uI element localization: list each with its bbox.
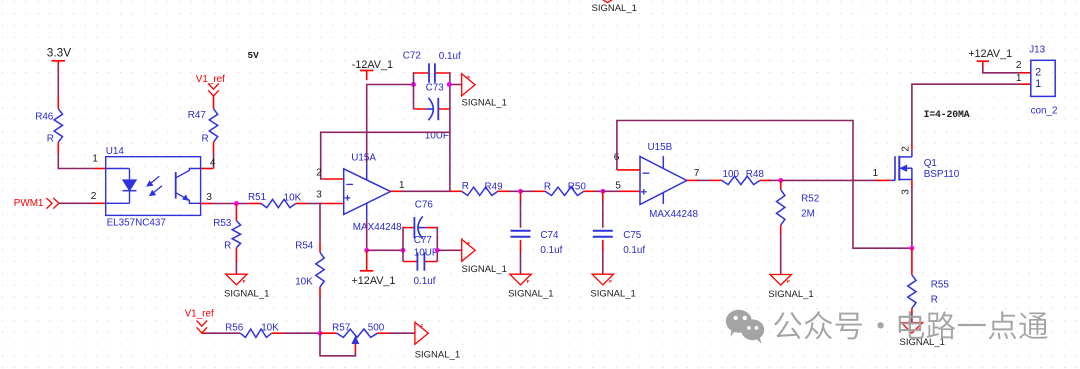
capacitor C77 0.1uf <box>403 235 438 287</box>
svg-text:SIGNAL_1: SIGNAL_1 <box>900 337 945 348</box>
resistor R54 <box>295 240 324 287</box>
resistor R56 <box>225 322 279 337</box>
potentiometer R57 500 <box>332 322 385 343</box>
junction C75 tap <box>600 189 605 194</box>
wire Q1 source down <box>911 180 913 188</box>
op-amp U15B MAX44248 <box>640 142 698 220</box>
svg-text:MAX44248: MAX44248 <box>353 222 402 233</box>
svg-text:R47: R47 <box>188 110 206 121</box>
svg-text:F: F <box>527 279 530 285</box>
wire R54 branch <box>319 203 321 243</box>
svg-text:+12AV_1: +12AV_1 <box>352 275 396 287</box>
wire U15A output <box>391 190 403 192</box>
svg-text:con_2: con_2 <box>1031 106 1058 117</box>
svg-text:2: 2 <box>316 167 322 178</box>
capacitor C73 10UF <box>414 82 450 141</box>
svg-text:3: 3 <box>206 192 212 203</box>
port SIGNAL_1 (R57) <box>415 322 460 360</box>
junction cap loop 2 left <box>401 248 406 253</box>
wire PWM1 to U14 pin 2 <box>59 202 95 204</box>
svg-text:C74: C74 <box>540 230 559 241</box>
svg-text:10K: 10K <box>261 322 279 333</box>
svg-text:3: 3 <box>316 190 322 201</box>
wire U15A pin2 feedback loop <box>321 132 450 179</box>
svg-text:R48: R48 <box>746 169 765 180</box>
capacitor C72 0.1uf <box>403 50 461 82</box>
svg-text:5V: 5V <box>248 50 260 61</box>
junction at cap loop right <box>447 82 452 87</box>
svg-text:R46: R46 <box>35 111 54 122</box>
junction cap loop 2 right <box>435 248 440 253</box>
resistor R55 <box>908 275 950 308</box>
port SIGNAL_1 (C72/C73) <box>462 74 507 109</box>
wire R51 to U15A pin 3 <box>296 203 307 205</box>
wire +12AV_1 to J13 pin 2 <box>983 66 1021 73</box>
junction at +12AV_1 <box>364 248 369 253</box>
wire R52 to ground <box>780 225 782 235</box>
power -12AV_1 <box>352 59 393 80</box>
resistor R48 <box>722 169 765 185</box>
svg-text:0.1uf: 0.1uf <box>540 245 562 256</box>
svg-text:R52: R52 <box>801 193 819 204</box>
wire junction to U15B pin 5 <box>603 190 620 192</box>
svg-text:R: R <box>544 182 551 193</box>
svg-text:C77: C77 <box>414 235 432 246</box>
wire R47 to U14 pin 4 <box>213 142 215 153</box>
op-amp U15A MAX44248 <box>344 152 402 233</box>
wire R53 to ground <box>235 248 237 262</box>
svg-text:I=4-20MA: I=4-20MA <box>924 109 970 120</box>
svg-text:R56: R56 <box>225 322 244 333</box>
svg-text:0.1uf: 0.1uf <box>414 276 436 287</box>
capacitor C74 0.1uf <box>511 191 563 274</box>
svg-text:0.1uf: 0.1uf <box>623 245 645 256</box>
svg-text:SIGNAL_1: SIGNAL_1 <box>508 289 553 300</box>
svg-text:1: 1 <box>399 180 405 191</box>
wire cap loop to SIGNAL_1 port <box>450 84 462 86</box>
svg-text:F: F <box>243 279 246 285</box>
wire R56 to junction <box>272 332 285 334</box>
junction R54/R56/R57 <box>318 331 323 336</box>
power port V1_ref (top) <box>196 74 225 96</box>
wire -12AV_1 to cap loop and U15A V- <box>367 85 414 164</box>
watermark WeChat logo <box>726 310 764 344</box>
svg-text:F: F <box>609 279 612 285</box>
ground SIGNAL_1 (R52) <box>768 275 813 300</box>
svg-text:MAX44248: MAX44248 <box>649 209 698 220</box>
wire U15B pin 6 stub <box>617 169 640 171</box>
svg-text:SIGNAL_1: SIGNAL_1 <box>768 289 813 300</box>
optocoupler U14 EL357NC437 <box>106 146 201 229</box>
ground SIGNAL_1 (clipped at top edge) <box>592 0 637 14</box>
svg-text:10K: 10K <box>295 276 313 287</box>
junction source node <box>909 246 914 251</box>
ground SIGNAL_1 (C75) <box>590 274 635 299</box>
svg-text:F: F <box>420 324 423 330</box>
wire U14 pin 3 to R51 <box>201 203 212 205</box>
svg-text:F: F <box>467 241 470 247</box>
port PWM1 <box>14 198 59 209</box>
svg-text:R55: R55 <box>931 279 950 290</box>
svg-text:R53: R53 <box>213 218 232 229</box>
power +12AV_1 (below U15A) <box>352 250 396 287</box>
svg-text:R54: R54 <box>295 240 314 251</box>
ground SIGNAL_1 (C74) <box>508 274 553 299</box>
svg-text:10K: 10K <box>284 192 302 203</box>
capacitor C75 0.1uf <box>593 191 646 274</box>
svg-text:R50: R50 <box>568 182 587 193</box>
capacitor C76 10UF <box>403 199 437 238</box>
wire U15A pin 2 stub <box>323 178 343 180</box>
wire cap loop 2 to SIGNAL_1 port <box>437 249 461 251</box>
junction at R53 tap <box>234 201 239 206</box>
svg-text:Q1: Q1 <box>924 158 938 169</box>
svg-text:2: 2 <box>91 191 97 202</box>
power +12AV_1 (top right) <box>968 48 1012 67</box>
junction C74 tap <box>518 189 523 194</box>
svg-text:-12AV_1: -12AV_1 <box>352 59 393 71</box>
wire R48 to junction <box>760 179 771 181</box>
svg-text:PWM1: PWM1 <box>14 198 44 209</box>
port SIGNAL_1 (C76/C77) <box>462 239 507 275</box>
watermark text <box>774 311 1048 339</box>
wire R55 to ground <box>911 308 913 313</box>
svg-text:U14: U14 <box>106 146 125 157</box>
svg-text:R57: R57 <box>332 322 350 333</box>
svg-text:U15B: U15B <box>648 142 673 153</box>
svg-text:C75: C75 <box>623 230 642 241</box>
ground SIGNAL_1 (R55) <box>900 323 945 348</box>
wire U15A V- to +12AV_1 row <box>366 221 368 251</box>
svg-text:100: 100 <box>723 169 740 180</box>
svg-text:SIGNAL_1: SIGNAL_1 <box>592 3 637 14</box>
svg-text:2: 2 <box>1016 60 1022 71</box>
svg-text:R: R <box>224 240 231 251</box>
wire cap loop edges <box>413 72 415 109</box>
svg-text:C76: C76 <box>415 199 434 210</box>
svg-text:R: R <box>202 133 209 144</box>
svg-text:R: R <box>462 181 469 192</box>
svg-text:SIGNAL_1: SIGNAL_1 <box>590 289 635 300</box>
wire 3.3V to R46 <box>57 65 59 97</box>
svg-text:V1_ref: V1_ref <box>196 74 225 85</box>
svg-text:2M: 2M <box>801 209 815 220</box>
svg-text:7: 7 <box>694 168 700 179</box>
svg-text:5: 5 <box>615 181 621 192</box>
svg-text:2: 2 <box>1035 67 1041 79</box>
svg-text:U15A: U15A <box>351 152 376 163</box>
svg-text:0.1uf: 0.1uf <box>439 51 461 62</box>
resistor R46 <box>35 109 62 145</box>
svg-text:1: 1 <box>92 153 98 164</box>
svg-text:J13: J13 <box>1029 44 1045 55</box>
svg-text:SIGNAL_1: SIGNAL_1 <box>415 349 460 360</box>
resistor R53 <box>213 204 240 252</box>
junction R52 tap <box>778 178 783 183</box>
svg-text:R: R <box>47 133 54 144</box>
wire junction to R50 <box>521 190 535 192</box>
ground SIGNAL_1 (R53) <box>224 274 269 299</box>
svg-text:10UF: 10UF <box>414 247 438 258</box>
wire V1_ref to R56 <box>202 332 206 334</box>
svg-text:4: 4 <box>210 157 216 168</box>
wire R50 to junction <box>584 190 595 192</box>
resistor R47 <box>188 109 218 145</box>
svg-text:1: 1 <box>1035 78 1041 90</box>
svg-text:1: 1 <box>1016 73 1022 84</box>
svg-text:1: 1 <box>873 168 879 179</box>
svg-text:C73: C73 <box>426 82 445 93</box>
wire R57 to SIGNAL_1 port <box>378 332 390 334</box>
wire U15B feedback loop to source node <box>617 121 912 249</box>
resistor R51 <box>248 192 302 208</box>
svg-text:C72: C72 <box>403 50 421 61</box>
svg-text:EL357NC437: EL357NC437 <box>107 218 166 229</box>
svg-text:500: 500 <box>368 322 385 333</box>
svg-text:3.3V: 3.3V <box>47 45 71 59</box>
wire Q1 drain to J13 pin 1 <box>911 144 913 150</box>
svg-text:2: 2 <box>901 146 912 152</box>
resistor R50 <box>544 182 587 196</box>
wire R49 to junction <box>498 190 509 192</box>
svg-text:+12AV_1: +12AV_1 <box>968 48 1012 60</box>
connector J13 con_2 <box>1029 44 1057 116</box>
wire U15B output <box>687 179 698 181</box>
wire V1_ref to R47 <box>213 97 215 109</box>
svg-text:SIGNAL_1: SIGNAL_1 <box>462 97 507 108</box>
wire junction to Q1 gate <box>781 179 876 181</box>
power port V1_ref (bottom) <box>185 309 214 333</box>
svg-text:SIGNAL_1: SIGNAL_1 <box>462 264 507 275</box>
wire junction to R57 <box>320 332 337 334</box>
resistor R52 2M <box>777 180 820 225</box>
svg-text:V1_ref: V1_ref <box>185 309 214 320</box>
svg-text:SIGNAL_1: SIGNAL_1 <box>224 289 269 300</box>
svg-text:3: 3 <box>901 189 912 195</box>
wire +12AV_1 row to cap loop <box>367 249 403 251</box>
wire R57 wiper loop <box>354 343 356 353</box>
wire source node to R55 <box>911 248 913 275</box>
wire R54 to bottom junction <box>319 287 321 298</box>
svg-text:R: R <box>931 295 938 306</box>
resistor R49 <box>462 181 504 196</box>
power 3.3V <box>47 45 71 64</box>
wire cap loop 2 edges <box>402 227 404 262</box>
svg-text:BSP110: BSP110 <box>924 169 960 180</box>
svg-text:F: F <box>787 279 790 285</box>
wire R46 to U14 pin 1 <box>57 142 59 154</box>
svg-text:R51: R51 <box>248 192 267 203</box>
transistor Q1 BSP110 <box>891 150 960 181</box>
junction at cap loop left <box>411 82 416 87</box>
svg-text:F: F <box>467 75 470 81</box>
